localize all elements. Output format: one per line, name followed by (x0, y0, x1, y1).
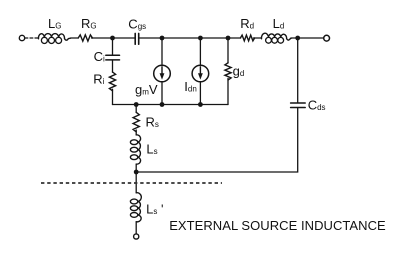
node gm bottom (160, 102, 165, 107)
source terminal (134, 234, 139, 239)
wire Ci branch (112, 38, 114, 55)
wire (135, 164, 137, 193)
inductor Ls' external (136, 193, 141, 222)
capacitor Cgs (134, 33, 136, 44)
node gate junction (110, 36, 115, 41)
inductor Lg (38, 34, 70, 41)
wire bottom rail (113, 104, 229, 106)
node drain junction (295, 36, 300, 41)
resistor Ri (109, 72, 115, 91)
node source junction (134, 170, 139, 175)
wire (92, 37, 136, 39)
wire (112, 89, 114, 104)
wire (112, 61, 114, 73)
current source gmV (154, 65, 171, 82)
resistor Rd (240, 35, 254, 41)
wire dotted lead (25, 37, 38, 39)
wire (291, 37, 324, 39)
wire (135, 130, 137, 135)
current source Idn (192, 65, 209, 82)
wire (135, 222, 137, 234)
wire (253, 37, 261, 39)
wire Idn branch top (199, 38, 201, 65)
capacitor Ci (106, 54, 120, 56)
svg-text:EXTERNAL SOURCE INDUCTANCE: EXTERNAL SOURCE INDUCTANCE (169, 218, 386, 233)
drain terminal (324, 35, 330, 41)
resistor Rs (133, 112, 139, 132)
node Rs top (134, 102, 139, 107)
wire gd branch top (227, 38, 229, 63)
gate terminal (19, 35, 24, 40)
wire (199, 82, 201, 105)
inductor Ld (261, 33, 291, 40)
node Idn top (198, 36, 203, 41)
inductor Ls (136, 135, 140, 164)
node Idn bottom (198, 102, 203, 107)
wire Rs branch (135, 105, 137, 113)
wire Cds branch (297, 38, 299, 102)
node gm top (160, 36, 165, 41)
wire gm branch top (161, 38, 163, 65)
wire (71, 37, 79, 39)
resistor gd (225, 63, 231, 80)
wire (227, 78, 229, 104)
resistor RG (78, 35, 92, 41)
boundary dashed line (41, 182, 222, 184)
wire (161, 82, 163, 105)
wire (136, 108, 298, 172)
wire (139, 37, 241, 39)
capacitor Cds (291, 102, 306, 104)
node gd top (226, 36, 231, 41)
